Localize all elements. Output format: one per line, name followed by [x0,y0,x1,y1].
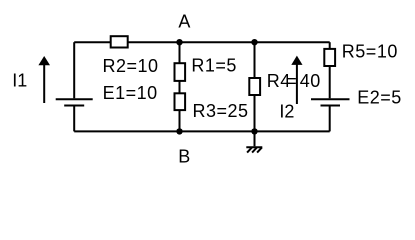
svg-text:E2=5: E2=5 [357,87,402,107]
svg-text:R4=40: R4=40 [267,71,321,91]
svg-text:R2=10: R2=10 [103,56,159,76]
svg-text:I1: I1 [12,70,27,90]
svg-text:E1=10: E1=10 [103,83,158,103]
svg-text:R5=10: R5=10 [342,41,398,61]
svg-text:R3=25: R3=25 [193,101,249,121]
svg-text:I2: I2 [279,102,294,122]
svg-text:B: B [178,146,191,166]
svg-text:A: A [178,11,191,31]
svg-text:R1=5: R1=5 [191,55,237,75]
